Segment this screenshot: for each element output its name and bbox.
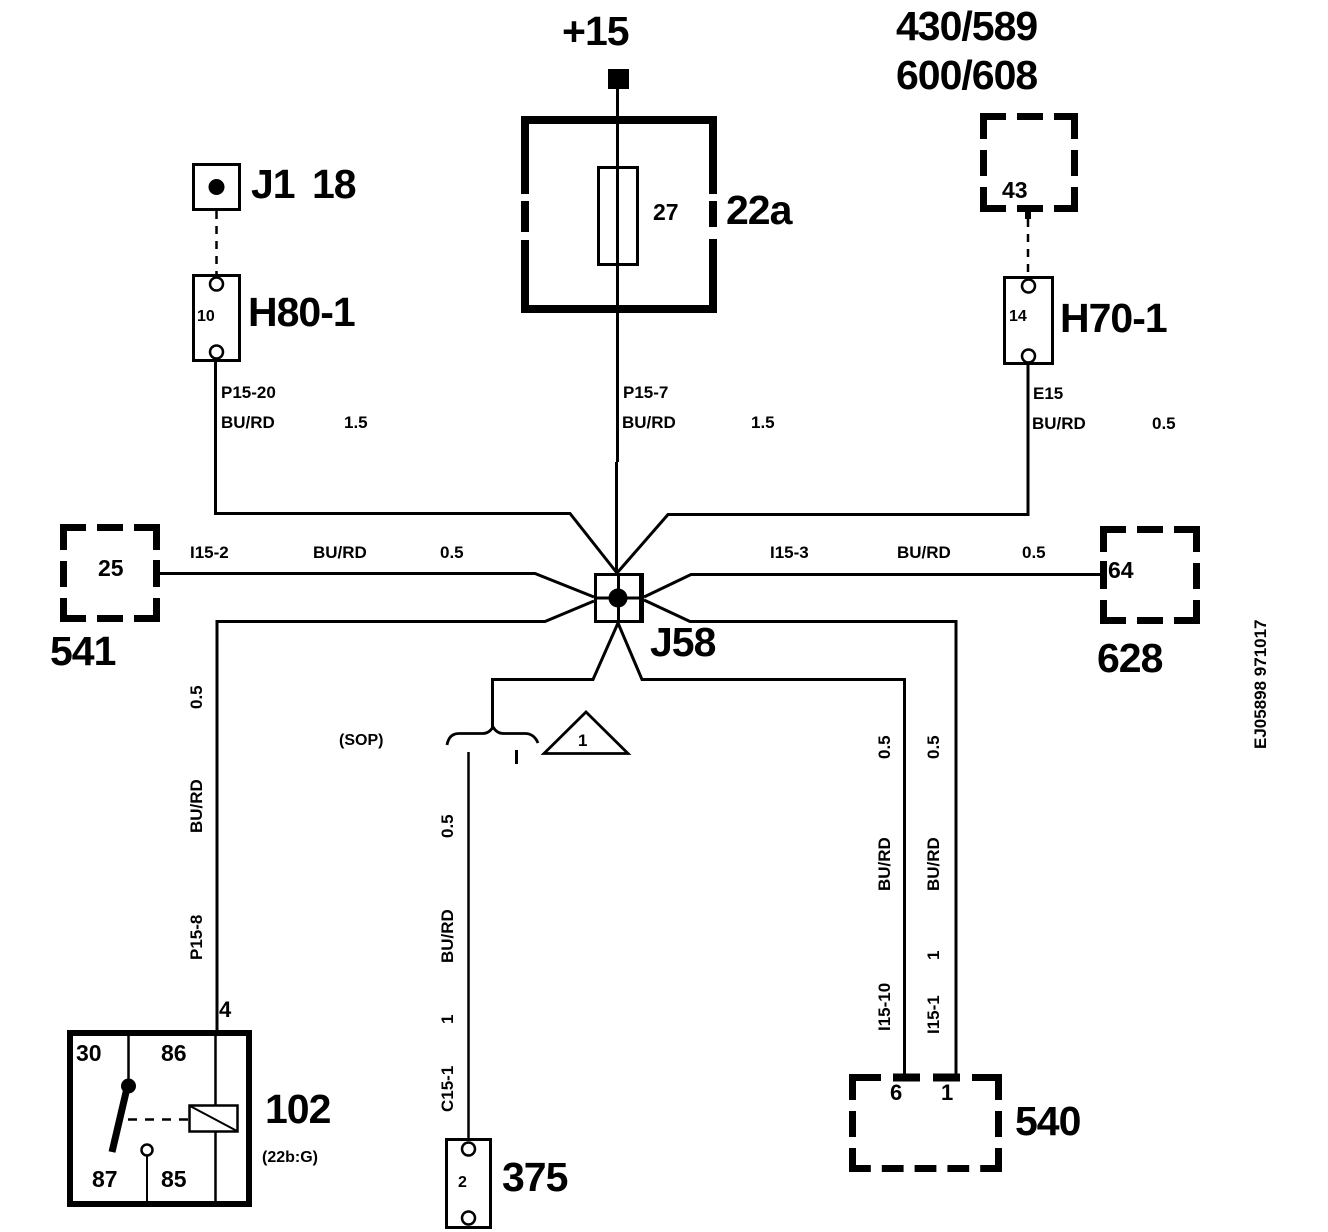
svg-text:64: 64 — [1108, 557, 1134, 583]
relay pin 30 lead — [127, 1033, 130, 1084]
dashed box 540 — [849, 1074, 1002, 1172]
dashed wire J1 to H80-1 — [215, 211, 218, 274]
svg-text:25: 25 — [98, 555, 124, 581]
svg-text:0.5: 0.5 — [440, 543, 464, 562]
svg-text:1: 1 — [438, 1015, 457, 1024]
wire: box 25 to J58 (I15-2) — [160, 574, 594, 598]
svg-text:(22b:G): (22b:G) — [262, 1149, 318, 1166]
svg-text:P15-7: P15-7 — [623, 383, 668, 402]
svg-text:H70-1: H70-1 — [1060, 295, 1167, 341]
svg-text:30: 30 — [76, 1040, 102, 1066]
bulb holder H80-1 — [194, 276, 240, 361]
svg-text:BU/RD: BU/RD — [875, 837, 894, 891]
svg-text:H80-1: H80-1 — [248, 289, 355, 335]
svg-text:430/589: 430/589 — [896, 3, 1037, 49]
svg-text:6: 6 — [890, 1080, 902, 1105]
relay coil lead (pin 4 to 85) — [214, 1030, 217, 1204]
svg-text:I15-2: I15-2 — [190, 543, 229, 562]
svg-text:BU/RD: BU/RD — [924, 837, 943, 891]
svg-text:0.5: 0.5 — [1152, 414, 1176, 433]
svg-text:I15-10: I15-10 — [875, 983, 894, 1031]
dashed box 25 — [60, 524, 160, 622]
svg-text:14: 14 — [1009, 308, 1027, 325]
wire: J58 to box 64 (I15-3) — [644, 575, 1100, 598]
wire: J58 down-left to inline connector — [493, 623, 619, 729]
svg-text:BU/RD: BU/RD — [622, 413, 676, 432]
svg-text:628: 628 — [1097, 635, 1163, 681]
svg-text:(SOP): (SOP) — [339, 732, 383, 749]
svg-text:EJ05898 971017: EJ05898 971017 — [1251, 619, 1270, 749]
pin stub at right of box 25 — [153, 560, 160, 586]
svg-text:0.5: 0.5 — [438, 814, 457, 838]
relay contact pivot dot — [121, 1079, 136, 1094]
dashed box 43 — [980, 113, 1078, 212]
svg-text:C15-1: C15-1 — [438, 1066, 457, 1112]
svg-text:22a: 22a — [726, 187, 794, 233]
wire: H70-1 to J58 (E15) — [617, 364, 1028, 573]
svg-text:+15: +15 — [562, 8, 629, 54]
svg-text:0.5: 0.5 — [875, 735, 894, 759]
relay 102 — [70, 1033, 249, 1204]
svg-text:P15-8: P15-8 — [187, 915, 206, 960]
svg-text:86: 86 — [161, 1040, 187, 1066]
wire: H80-1 to J58 (P15-20) — [216, 362, 618, 573]
svg-text:18: 18 — [312, 161, 356, 207]
svg-text:BU/RD: BU/RD — [1032, 414, 1086, 433]
bulb holder H70-1 — [1005, 278, 1053, 364]
connector 375 — [447, 1140, 491, 1228]
svg-text:540: 540 — [1015, 1098, 1081, 1144]
inline harness connector symbol (brace) — [447, 727, 538, 745]
fuse 27 element — [599, 168, 638, 265]
svg-text:87: 87 — [92, 1166, 118, 1192]
note triangle 1 — [544, 712, 628, 754]
relay switch arm — [112, 1088, 127, 1152]
relay pin 87 lead — [146, 1156, 148, 1204]
svg-text:1: 1 — [924, 951, 943, 960]
svg-text:0.5: 0.5 — [1022, 543, 1046, 562]
svg-text:1: 1 — [941, 1080, 953, 1105]
svg-text:BU/RD: BU/RD — [438, 909, 457, 963]
pin stub at left of box 64 — [1100, 561, 1107, 587]
svg-text:BU/RD: BU/RD — [897, 543, 951, 562]
svg-text:600/608: 600/608 — [896, 52, 1037, 98]
svg-text:BU/RD: BU/RD — [221, 413, 275, 432]
svg-text:BU/RD: BU/RD — [313, 543, 367, 562]
svg-text:J58: J58 — [650, 619, 716, 665]
svg-text:P15-20: P15-20 — [221, 383, 276, 402]
svg-text:27: 27 — [653, 199, 679, 225]
svg-text:85: 85 — [161, 1166, 187, 1192]
svg-text:I15-3: I15-3 — [770, 543, 809, 562]
terminal square +15 — [608, 69, 629, 89]
wire: +15 terminal through fuse 22a down to junction J58 — [616, 89, 619, 462]
svg-text:E15: E15 — [1033, 384, 1063, 403]
dashed box 64 — [1100, 526, 1200, 624]
svg-text:1: 1 — [578, 731, 587, 750]
wire: connector to 375 (C15-1) — [467, 752, 470, 1139]
junction J58 — [594, 573, 644, 623]
svg-text:1.5: 1.5 — [344, 413, 368, 432]
svg-text:0.5: 0.5 — [187, 685, 206, 709]
connector J1 — [194, 165, 240, 210]
relay coil box — [190, 1106, 238, 1132]
wire: J58 down-right to 540 pin 6 (I15-10) — [618, 623, 905, 1075]
dashed wire 43 to H70-1 — [1027, 219, 1030, 276]
pin stub below box 43 — [1025, 206, 1031, 219]
svg-text:2: 2 — [458, 1174, 467, 1191]
svg-text:0.5: 0.5 — [924, 735, 943, 759]
svg-text:102: 102 — [265, 1086, 331, 1132]
fuse holder box 22a — [521, 116, 717, 313]
connector tick mark — [515, 750, 518, 764]
svg-text:43: 43 — [1002, 177, 1028, 203]
svg-text:I15-1: I15-1 — [924, 995, 943, 1034]
svg-text:541: 541 — [50, 628, 116, 674]
wire: J58 to relay 102 pin 4 (P15-8) — [217, 601, 594, 1030]
svg-text:BU/RD: BU/RD — [187, 779, 206, 833]
svg-text:4: 4 — [219, 997, 232, 1022]
svg-text:1.5: 1.5 — [751, 413, 775, 432]
relay pin 87 contact circle — [142, 1145, 153, 1156]
svg-text:375: 375 — [502, 1154, 568, 1200]
svg-text:J1: J1 — [251, 161, 295, 207]
svg-text:10: 10 — [197, 308, 215, 325]
wire: J58 to 540 pin 1 (I15-1) — [644, 600, 956, 1075]
relay actuation dashed link — [128, 1118, 189, 1121]
